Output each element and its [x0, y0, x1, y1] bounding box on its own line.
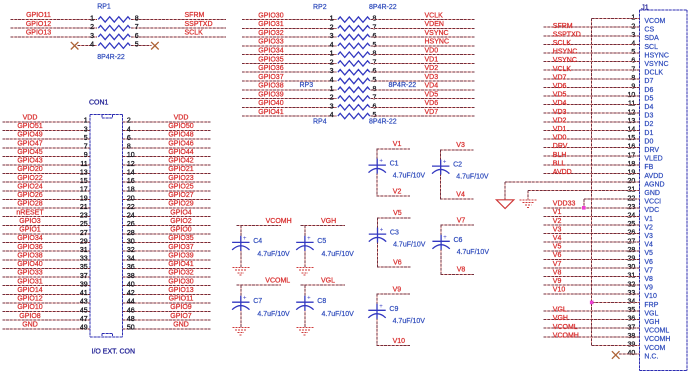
svg-text:C6: C6 [454, 237, 463, 244]
svg-text:V7: V7 [553, 261, 562, 268]
wire J1 pin 4 (SCLK) [544, 43, 640, 45]
wire RP2 pin 5 right (HSYNC) [371, 45, 475, 47]
wire C3 vertical [377, 218, 379, 267]
svg-text:VCOML: VCOML [644, 328, 669, 335]
wire J1 pin 33 (V10) [544, 293, 640, 295]
svg-text:GND: GND [22, 321, 38, 328]
resistor RP1 element 3-6 [98, 34, 130, 39]
ground GND net [520, 200, 537, 208]
svg-text:15: 15 [80, 178, 88, 185]
wire J1 pin 28 (V5) [544, 250, 640, 252]
svg-text:1: 1 [330, 51, 334, 58]
svg-text:37: 37 [80, 273, 88, 280]
wire C8 top rail (VGL) [301, 284, 345, 286]
wire RP3 pin 5 right (VD3) [371, 80, 475, 82]
wire J1 pin 1 (VCOM) [592, 18, 640, 20]
wire J1 pin 27 (V4) [544, 241, 640, 243]
wire J1 pin 8 (VD7) [544, 78, 640, 80]
svg-text:1: 1 [330, 16, 334, 23]
wire RP1 pin 2 left [10, 27, 97, 29]
wire CON1 pin 7 (GPIO47) [2, 147, 90, 149]
wire J1 pin 26 (V3) [544, 233, 640, 235]
svg-text:DCLK: DCLK [644, 70, 663, 77]
wire CON1 pin 44 (GPIO11) [122, 302, 210, 304]
svg-text:C1: C1 [390, 161, 399, 168]
wire J1 pin 23 (VDD33) [544, 207, 640, 209]
wire CON1 pin 31 (GPIO36) [2, 250, 90, 252]
svg-text:GPIO33: GPIO33 [258, 39, 283, 46]
resistor RP2 element 1-8 [338, 17, 370, 22]
capacitor C5 symbol [296, 236, 313, 251]
svg-text:6: 6 [127, 135, 131, 142]
svg-text:GPIO2: GPIO2 [170, 218, 192, 225]
no-connect RP1 pin 4 [71, 42, 79, 50]
wire J1 pin 24 (V1) [544, 215, 640, 217]
svg-text:GPIO39: GPIO39 [168, 252, 193, 259]
wire C7 vertical [240, 285, 242, 327]
wire RP1 pin 8 right [131, 18, 226, 20]
svg-text:VD0: VD0 [553, 135, 567, 142]
resistor RP3 element 1-8 [338, 52, 370, 57]
wire C8 vertical [304, 285, 306, 327]
wire RP4 pin 2 left (GPIO39) [242, 98, 337, 100]
wire CON1 pin 37 (GPIO33) [2, 276, 90, 278]
wire C1 vertical [376, 149, 378, 196]
svg-text:21: 21 [80, 204, 88, 211]
svg-text:GPIO11: GPIO11 [169, 296, 194, 303]
svg-text:12: 12 [127, 161, 135, 168]
svg-text:GPIO32: GPIO32 [258, 30, 283, 37]
svg-text:10: 10 [127, 152, 135, 159]
svg-text:V4: V4 [644, 242, 653, 249]
svg-text:VCLK: VCLK [425, 12, 444, 19]
wire C2 vertical [440, 150, 442, 199]
svg-text:GPIO36: GPIO36 [17, 244, 42, 251]
wire VCCI drop to VDD33 [583, 199, 585, 208]
earth ground symbol (AGND) [496, 200, 513, 209]
svg-text:VD2: VD2 [553, 117, 567, 124]
junction VCOM bus pin 34 [590, 301, 594, 305]
svg-text:GPIO41: GPIO41 [168, 261, 193, 268]
svg-text:GPIO45: GPIO45 [17, 149, 42, 156]
wire RP2 pin 6 right (VSYNC) [371, 36, 475, 38]
wire C4 top rail (VCOMH) [237, 224, 281, 226]
svg-text:GPIO34: GPIO34 [258, 47, 283, 54]
wire RP1 pin 3 left [10, 36, 97, 38]
resistor RP3 element 4-5 [338, 78, 370, 83]
svg-text:1: 1 [90, 15, 94, 22]
wire RP4 pin 6 right (VD6) [371, 106, 475, 108]
svg-text:nRESET: nRESET [16, 209, 44, 216]
svg-text:4.7uF/10V: 4.7uF/10V [393, 318, 426, 325]
svg-text:4.7uF/10V: 4.7uF/10V [322, 311, 355, 318]
svg-text:+: + [243, 236, 247, 242]
wire CON1 pin 13 (GPIO20) [2, 173, 90, 175]
svg-text:VGH: VGH [644, 319, 659, 326]
svg-text:DRV: DRV [553, 143, 568, 150]
svg-text:4.7uF/10V: 4.7uF/10V [257, 311, 290, 318]
svg-text:1: 1 [84, 118, 88, 125]
wire CON1 pin 47 (GPIO8) [2, 319, 90, 321]
svg-text:V9: V9 [553, 278, 562, 285]
svg-text:V3: V3 [644, 233, 653, 240]
svg-text:SCLK: SCLK [553, 40, 572, 47]
svg-text:D7: D7 [644, 78, 653, 85]
svg-text:29: 29 [80, 238, 88, 245]
wire CON1 pin 21 (GPIO28) [2, 207, 90, 209]
wire CON1 pin 43 (GPIO12) [2, 302, 90, 304]
wire CON1 pin 22 (GPIO29) [122, 207, 210, 209]
svg-text:23: 23 [80, 213, 88, 220]
svg-text:V7: V7 [644, 267, 653, 274]
wire CON1 pin 15 (GPIO22) [2, 181, 90, 183]
svg-text:SCL: SCL [644, 44, 658, 51]
svg-text:D6: D6 [644, 87, 653, 94]
svg-text:VD1: VD1 [425, 56, 439, 63]
svg-text:V2: V2 [393, 189, 402, 196]
svg-text:GPIO39: GPIO39 [258, 91, 283, 98]
svg-text:V10: V10 [393, 338, 406, 345]
wire J1 pin 22 (VCCI) [584, 198, 640, 200]
svg-text:V5: V5 [553, 244, 562, 251]
wire CON1 pin 27 (GPIO1) [2, 233, 90, 235]
svg-text:VCOM: VCOM [644, 345, 665, 352]
resistor RP1 element 1-8 [98, 17, 130, 22]
svg-text:13: 13 [80, 169, 88, 176]
svg-text:AVDD: AVDD [644, 173, 663, 180]
wire C9 top rail (V9) [376, 293, 410, 295]
svg-text:17: 17 [80, 187, 88, 194]
svg-text:2: 2 [127, 118, 131, 125]
wire RP2 pin 2 left (GPIO31) [242, 27, 337, 29]
wire J1 pin 12 (VD3) [544, 112, 640, 114]
svg-text:GPIO12: GPIO12 [26, 21, 51, 28]
svg-text:48: 48 [127, 316, 135, 323]
svg-text:+: + [243, 296, 247, 302]
wire RP1 pin 1 left [10, 18, 97, 20]
wire C1 top rail (V1) [377, 148, 411, 150]
wire CON1 pin 28 (GPIO0) [122, 233, 210, 235]
svg-text:3: 3 [84, 126, 88, 133]
wire RP2 pin 1 left (GPIO30) [242, 19, 337, 21]
wire J1 pin 2 (SFRM) [544, 26, 640, 28]
wire J1 pin 25 (V2) [544, 224, 640, 226]
capacitor C4 symbol [232, 236, 249, 251]
wire J1 pin 13 (VD2) [544, 121, 640, 123]
no-connect J1 pin 40 [612, 351, 620, 359]
wire CON1 pin 30 (GPIO35) [122, 242, 210, 244]
resistor RP3 element 2-7 [338, 61, 370, 66]
wire CON1 pin 14 (GPIO21) [122, 173, 210, 175]
svg-text:SFRM: SFRM [185, 12, 205, 19]
svg-text:V8: V8 [644, 276, 653, 283]
svg-text:3: 3 [330, 68, 334, 75]
svg-text:V7: V7 [457, 217, 466, 224]
svg-text:RP1: RP1 [97, 4, 111, 11]
wire CON1 pin 2 (VDD) [122, 121, 210, 123]
capacitor C3 symbol [369, 228, 386, 243]
wire CON1 pin 23 (nRESET) [2, 216, 90, 218]
wire C7 top rail (VCOML) [237, 284, 281, 286]
svg-text:RP4: RP4 [313, 119, 327, 126]
svg-text:GND: GND [173, 321, 189, 328]
svg-text:8: 8 [127, 144, 131, 151]
wire J1 pin 10 (VD5) [544, 95, 640, 97]
svg-text:VSYNC: VSYNC [425, 30, 449, 37]
svg-text:GPIO10: GPIO10 [17, 304, 42, 311]
svg-text:GPIO42: GPIO42 [168, 158, 193, 165]
svg-text:GPIO31: GPIO31 [17, 278, 42, 285]
svg-text:GPIO26: GPIO26 [17, 192, 42, 199]
resistor RP1 element 4-5 [98, 43, 130, 48]
svg-text:VDEN: VDEN [425, 21, 444, 28]
wire CON1 pin 42 (GPIO13) [122, 293, 210, 295]
svg-text:V10: V10 [553, 287, 566, 294]
svg-text:28: 28 [127, 230, 135, 237]
wire CON1 pin 9 (GPIO45) [2, 155, 90, 157]
wire J1 pin 20 (AGND) [505, 181, 640, 183]
wire RP2 pin 7 right (VDEN) [371, 27, 475, 29]
svg-text:GPIO41: GPIO41 [258, 109, 283, 116]
wire J1 pin 37 (VCOML) [544, 327, 640, 329]
wire C2 top rail (V3) [440, 149, 474, 151]
svg-text:4.7uF/10V: 4.7uF/10V [457, 249, 490, 256]
svg-text:GPIO47: GPIO47 [17, 140, 42, 147]
svg-text:+: + [379, 159, 383, 165]
svg-text:CON1: CON1 [89, 99, 109, 106]
svg-text:+: + [307, 296, 311, 302]
svg-text:VD6: VD6 [553, 83, 567, 90]
wire CON1 pin 4 (GPIO50) [122, 130, 210, 132]
wire GND drop to ground [527, 191, 529, 200]
resistor RP2 element 3-6 [338, 34, 370, 39]
wire J1 pin 39 (VCOM) [592, 344, 640, 346]
svg-text:50: 50 [127, 325, 135, 332]
wire CON1 pin 41 (GPIO14) [2, 293, 90, 295]
svg-text:6: 6 [135, 33, 139, 40]
svg-text:VD2: VD2 [425, 65, 439, 72]
svg-text:GPIO31: GPIO31 [258, 21, 283, 28]
wire RP4 pin 1 left (GPIO38) [242, 89, 337, 91]
wire J1 pin 19 (AVDD) [544, 172, 640, 174]
svg-text:GPIO51: GPIO51 [17, 123, 42, 130]
svg-text:3: 3 [330, 103, 334, 110]
wire CON1 pin 50 (GND) [122, 328, 210, 330]
wire J1 pin 18 (BLL) [544, 164, 640, 166]
svg-text:VD0: VD0 [425, 47, 439, 54]
svg-text:D5: D5 [644, 95, 653, 102]
svg-text:34: 34 [127, 256, 135, 263]
svg-text:46: 46 [127, 307, 135, 314]
svg-text:VLED: VLED [644, 156, 662, 163]
wire RP4 pin 8 right (VD4) [371, 89, 475, 91]
svg-text:4: 4 [90, 42, 94, 49]
svg-text:C3: C3 [390, 230, 399, 237]
svg-text:25: 25 [80, 221, 88, 228]
svg-text:HSYNC: HSYNC [644, 52, 669, 59]
svg-text:V1: V1 [553, 209, 562, 216]
svg-text:D0: D0 [644, 138, 653, 145]
svg-text:GPIO24: GPIO24 [17, 183, 42, 190]
capacitor C2 symbol [432, 160, 449, 175]
svg-text:35: 35 [80, 264, 88, 271]
svg-text:7: 7 [84, 144, 88, 151]
svg-text:GPIO3: GPIO3 [19, 218, 41, 225]
wire CON1 pin 38 (GPIO32) [122, 276, 210, 278]
svg-text:D1: D1 [644, 130, 653, 137]
svg-text:VCOMH: VCOMH [644, 336, 670, 343]
svg-text:GND: GND [644, 190, 660, 197]
svg-text:11: 11 [80, 161, 87, 168]
svg-text:I/O EXT. CON: I/O EXT. CON [92, 348, 136, 355]
svg-text:RP2: RP2 [313, 4, 327, 11]
svg-text:GPIO12: GPIO12 [17, 296, 42, 303]
wire RP3 pin 2 left (GPIO35) [242, 62, 337, 64]
wire CON1 pin 11 (GPIO43) [2, 164, 90, 166]
svg-text:20: 20 [127, 195, 135, 202]
svg-text:4: 4 [330, 112, 334, 119]
wire CON1 pin 32 (GPIO37) [122, 250, 210, 252]
wire RP3 pin 6 right (VD2) [371, 71, 475, 73]
svg-text:33: 33 [80, 256, 88, 263]
svg-text:VDD: VDD [174, 115, 189, 122]
svg-text:40: 40 [127, 281, 135, 288]
svg-text:VGH: VGH [321, 218, 336, 225]
wire C9 bottom rail (V10) [376, 345, 410, 347]
svg-text:D3: D3 [644, 113, 653, 120]
wire J1 pin 9 (VD6) [544, 86, 640, 88]
svg-text:V8: V8 [553, 269, 562, 276]
svg-text:SSPTXD: SSPTXD [185, 21, 213, 28]
wire CON1 pin 35 (GPIO40) [2, 267, 90, 269]
svg-text:+: + [443, 160, 447, 166]
svg-text:8P4R-22: 8P4R-22 [369, 119, 397, 126]
svg-text:GPIO50: GPIO50 [168, 123, 193, 130]
svg-text:4.7uF/10V: 4.7uF/10V [257, 251, 290, 258]
wire RP3 pin 8 right (VD0) [371, 54, 475, 56]
svg-text:VD4: VD4 [425, 83, 439, 90]
svg-text:+: + [380, 228, 384, 234]
svg-text:BLH: BLH [553, 152, 567, 159]
wire CON1 pin 6 (GPIO48) [122, 138, 210, 140]
svg-text:GPIO25: GPIO25 [168, 183, 193, 190]
svg-text:GPIO30: GPIO30 [258, 12, 283, 19]
svg-text:GPIO35: GPIO35 [168, 235, 193, 242]
svg-text:BLL: BLL [553, 160, 566, 167]
wire CON1 pin 29 (GPIO34) [2, 242, 90, 244]
svg-text:FB: FB [644, 164, 653, 171]
svg-text:V1: V1 [644, 216, 653, 223]
wire RP4 pin 3 left (GPIO40) [242, 106, 337, 108]
svg-text:GPIO33: GPIO33 [17, 270, 42, 277]
wire AGND drop to earth ground [504, 182, 506, 200]
svg-text:VDD33: VDD33 [553, 201, 576, 208]
ground C5 [296, 268, 313, 276]
svg-text:8P4R-22: 8P4R-22 [389, 82, 417, 89]
resistor RP4 element 3-6 [338, 105, 370, 110]
wire CON1 pin 48 (GPIO7) [122, 319, 210, 321]
resistor RP4 element 1-8 [338, 87, 370, 92]
svg-text:43: 43 [80, 299, 88, 306]
svg-text:D4: D4 [644, 104, 653, 111]
svg-text:GPIO11: GPIO11 [26, 12, 51, 19]
wire RP3 pin 3 left (GPIO36) [242, 71, 337, 73]
wire J1 pin 38 (VCOMH) [544, 336, 640, 338]
wire RP1 pin 5 stub [131, 45, 152, 47]
wire CON1 pin 3 (GPIO51) [2, 130, 90, 132]
svg-text:C4: C4 [253, 238, 262, 245]
svg-text:24: 24 [127, 213, 135, 220]
svg-text:VCOMH: VCOMH [266, 218, 292, 225]
wire RP1 pin 6 right [131, 36, 226, 38]
svg-text:2: 2 [330, 59, 334, 66]
svg-text:VSYNC: VSYNC [644, 61, 668, 68]
svg-text:36: 36 [127, 264, 135, 271]
wire CON1 pin 45 (GPIO10) [2, 311, 90, 313]
wire C6 vertical [440, 225, 442, 274]
svg-text:47: 47 [80, 316, 88, 323]
svg-text:GPIO38: GPIO38 [17, 252, 42, 259]
wire CON1 pin 49 (GND) [2, 328, 90, 330]
svg-text:2: 2 [90, 24, 94, 31]
svg-text:FRP: FRP [644, 302, 658, 309]
svg-text:C9: C9 [389, 306, 398, 313]
svg-text:GPIO23: GPIO23 [168, 175, 193, 182]
svg-text:GPIO28: GPIO28 [17, 201, 42, 208]
svg-text:V6: V6 [393, 259, 402, 266]
wire CON1 pin 16 (GPIO23) [122, 181, 210, 183]
svg-text:38: 38 [127, 273, 135, 280]
svg-text:C2: C2 [453, 162, 462, 169]
svg-text:VD6: VD6 [425, 100, 439, 107]
svg-text:14: 14 [127, 169, 135, 176]
capacitor C7 symbol [232, 296, 249, 311]
wire CON1 pin 36 (GPIO41) [122, 267, 210, 269]
wire CON1 pin 25 (GPIO3) [2, 224, 90, 226]
svg-text:GPIO20: GPIO20 [17, 166, 42, 173]
svg-text:VGH: VGH [553, 315, 568, 322]
wire RP2 pin 4 left (GPIO33) [242, 45, 337, 47]
wire J1 pin 3 (SSPTXD) [544, 35, 640, 37]
svg-text:C8: C8 [317, 298, 326, 305]
capacitor C8 symbol [296, 296, 313, 311]
svg-text:GPIO38: GPIO38 [258, 83, 283, 90]
svg-text:GPIO0: GPIO0 [170, 227, 192, 234]
svg-text:4.7uF/10V: 4.7uF/10V [393, 173, 426, 180]
wire VCOM bus vertical [591, 19, 593, 346]
wire J1 pin 34 (FRP) from VCOM bus [592, 301, 640, 303]
svg-text:GPIO27: GPIO27 [168, 192, 193, 199]
capacitor C1 symbol [369, 159, 386, 174]
wire C3 bottom rail (V6) [377, 266, 411, 268]
svg-text:VD7: VD7 [553, 74, 567, 81]
junction VDD33/VCCI [582, 206, 586, 210]
wire J1 pin 15 (VD0) [544, 138, 640, 140]
svg-text:V4: V4 [456, 191, 465, 198]
capacitor C6 symbol [432, 235, 449, 250]
resistor RP1 element 2-7 [98, 26, 130, 31]
svg-text:26: 26 [127, 221, 135, 228]
svg-text:5: 5 [84, 135, 88, 142]
svg-text:4: 4 [330, 77, 334, 84]
wire RP3 pin 1 left (GPIO34) [242, 54, 337, 56]
svg-text:VCOM: VCOM [644, 18, 665, 25]
svg-text:VGL: VGL [644, 310, 658, 317]
svg-text:SFRM: SFRM [553, 23, 573, 30]
svg-text:VD7: VD7 [425, 109, 439, 116]
wire J1 pin 7 (VCLK) [544, 69, 640, 71]
wire RP2 pin 8 right (VCLK) [371, 19, 475, 21]
